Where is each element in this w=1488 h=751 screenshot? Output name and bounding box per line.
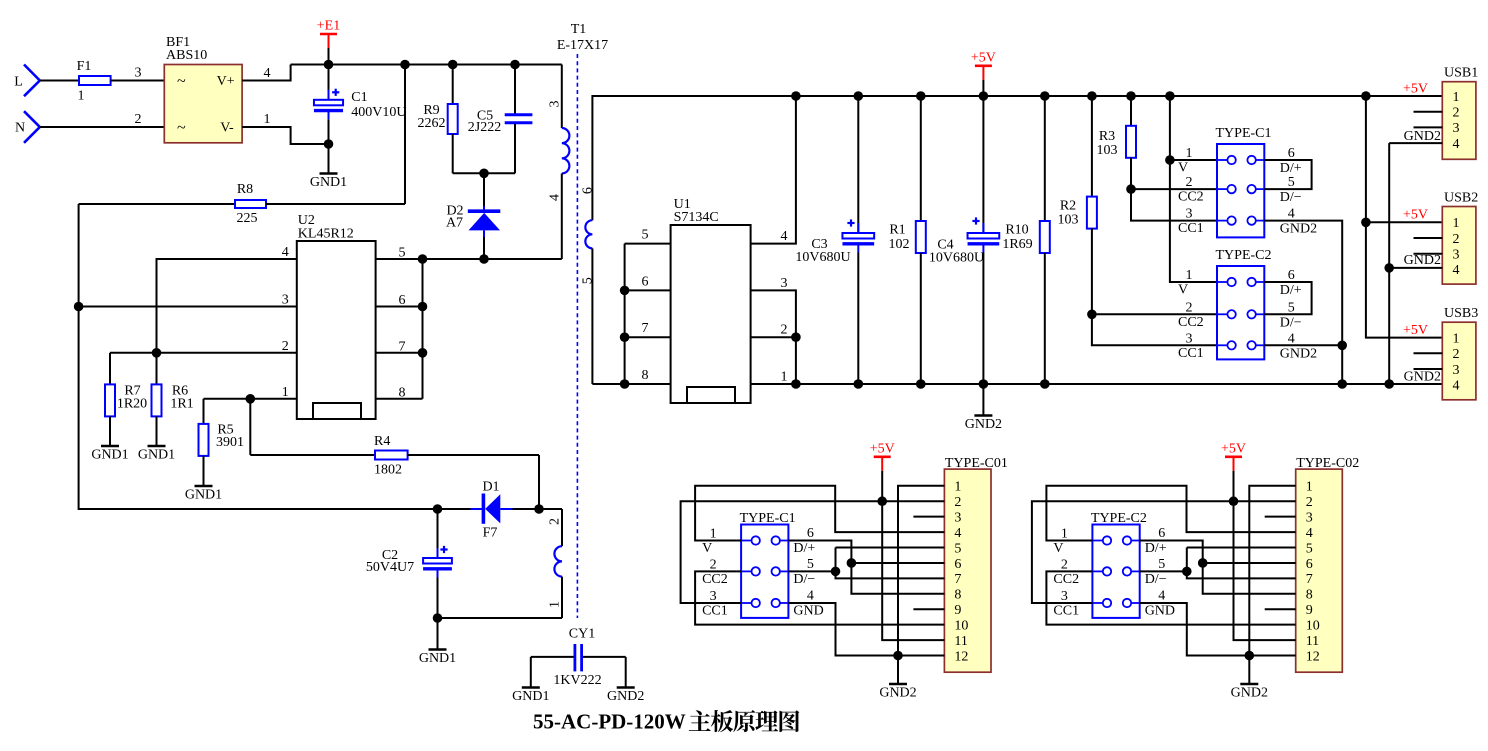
node — [854, 379, 864, 389]
svg-text:TYPE-C1: TYPE-C1 — [1216, 126, 1272, 141]
node — [479, 254, 489, 264]
svg-text:GND2: GND2 — [1280, 346, 1317, 361]
label T1 — [557, 22, 608, 53]
svg-text:D/−: D/− — [793, 572, 815, 587]
svg-text:CC1: CC1 — [1178, 221, 1204, 236]
node — [893, 651, 903, 661]
svg-text:USB2: USB2 — [1444, 190, 1478, 205]
svg-text:11: 11 — [954, 634, 967, 649]
connector USB3 — [1442, 306, 1478, 400]
wire — [1264, 160, 1311, 189]
svg-text:4: 4 — [807, 589, 814, 604]
svg-text:E-17X17: E-17X17 — [557, 38, 608, 53]
svg-text:GND: GND — [793, 604, 823, 619]
svg-text:R1: R1 — [889, 223, 905, 238]
svg-text:6: 6 — [1158, 526, 1165, 541]
wire — [751, 96, 796, 244]
power +5V — [870, 441, 895, 501]
capacitor CY1 — [531, 627, 626, 689]
svg-text:7: 7 — [642, 321, 649, 336]
svg-text:3: 3 — [548, 101, 563, 108]
label GND2 — [1404, 129, 1441, 144]
wire — [1140, 570, 1187, 572]
svg-text:10V680U: 10V680U — [795, 250, 850, 265]
resistor R7 — [105, 353, 147, 446]
pin labels TYPE-C2 right — [1145, 526, 1175, 619]
connector TYPE-C01 — [944, 456, 1008, 672]
svg-text:D/−: D/− — [1280, 315, 1302, 330]
pin labels TYPE-C2 left — [1178, 268, 1204, 361]
wire — [1131, 188, 1217, 190]
capacitor C3 — [795, 96, 874, 384]
node — [324, 60, 334, 70]
pin label U2.5 — [399, 246, 406, 261]
svg-text:USB3: USB3 — [1444, 306, 1478, 321]
regulator U1 — [671, 197, 751, 403]
svg-text:1: 1 — [1453, 216, 1460, 231]
svg-text:TYPE-C2: TYPE-C2 — [1216, 248, 1272, 263]
svg-text:6: 6 — [1288, 146, 1295, 161]
transformer T1 secondary winding 2-1 — [438, 509, 563, 618]
svg-text:1: 1 — [1453, 90, 1460, 105]
wire — [751, 383, 1443, 385]
svg-text:1KV222: 1KV222 — [553, 673, 601, 688]
svg-text:D/−: D/− — [1280, 190, 1302, 205]
label +5V — [1403, 208, 1428, 223]
svg-text:2: 2 — [1061, 557, 1068, 572]
pin label U1.5 — [642, 228, 649, 243]
connector TYPE-C2 — [1091, 511, 1147, 618]
node — [1087, 310, 1097, 320]
wire — [376, 398, 423, 400]
svg-text:GND1: GND1 — [512, 689, 549, 704]
node — [433, 504, 443, 514]
wire — [110, 352, 297, 354]
ground GND2 — [607, 657, 644, 704]
svg-text:4: 4 — [781, 229, 788, 244]
svg-text:1: 1 — [1186, 268, 1193, 283]
svg-text:2: 2 — [1453, 347, 1460, 362]
wire — [376, 352, 423, 354]
wire — [898, 486, 944, 656]
wire — [836, 548, 945, 579]
svg-text:GND2: GND2 — [965, 417, 1002, 432]
svg-text:V: V — [1178, 161, 1188, 176]
svg-text:10V680U: 10V680U — [929, 251, 984, 266]
svg-text:3: 3 — [1453, 121, 1460, 136]
wire — [1265, 516, 1296, 518]
wire — [422, 259, 424, 399]
svg-text:1: 1 — [781, 370, 788, 385]
svg-text:V: V — [1053, 541, 1063, 556]
wire — [913, 608, 944, 610]
wire — [453, 172, 515, 174]
port L — [14, 65, 40, 97]
svg-text:6: 6 — [581, 187, 596, 194]
wire — [751, 290, 796, 384]
resistor R9 — [418, 65, 458, 174]
svg-text:2: 2 — [1306, 495, 1313, 510]
svg-text:GND1: GND1 — [310, 175, 347, 190]
resistor R3 — [1097, 96, 1218, 221]
node — [1361, 218, 1371, 228]
svg-text:3: 3 — [1061, 589, 1068, 604]
svg-text:4: 4 — [1288, 331, 1295, 346]
svg-text:2: 2 — [548, 518, 563, 525]
wire — [851, 562, 944, 564]
bridge rectifier BF1 — [164, 35, 242, 143]
svg-text:+5V: +5V — [1403, 82, 1428, 97]
wire — [242, 112, 328, 144]
svg-text:2: 2 — [1453, 106, 1460, 121]
pin label U1.1 — [781, 370, 788, 385]
wire — [1264, 344, 1342, 346]
pin labels TYPE-C1 right — [1280, 146, 1317, 237]
svg-text:R4: R4 — [374, 434, 390, 449]
wire — [1414, 126, 1443, 128]
svg-text:~: ~ — [177, 73, 186, 90]
wire — [913, 516, 944, 518]
svg-text:9: 9 — [1306, 603, 1313, 618]
svg-text:4: 4 — [1288, 207, 1295, 222]
wire — [681, 501, 945, 603]
svg-text:2: 2 — [282, 339, 289, 354]
pin label U1.2 — [781, 323, 788, 338]
ground GND1 — [512, 657, 549, 704]
wire — [1388, 143, 1390, 384]
svg-text:4: 4 — [1453, 379, 1460, 394]
svg-text:5: 5 — [1288, 175, 1295, 190]
svg-text:8: 8 — [954, 588, 961, 603]
svg-text:1: 1 — [1186, 146, 1193, 161]
wire — [1264, 282, 1311, 314]
node — [1198, 558, 1208, 568]
svg-text:3: 3 — [781, 276, 788, 291]
svg-text:GND2: GND2 — [879, 686, 916, 701]
pin label U1.3 — [781, 276, 788, 291]
svg-text:F7: F7 — [483, 526, 498, 541]
svg-text:400V10U: 400V10U — [351, 105, 406, 120]
svg-text:R2: R2 — [1060, 198, 1076, 213]
svg-text:7: 7 — [1306, 572, 1313, 587]
svg-text:3: 3 — [1453, 363, 1460, 378]
ground GND2 — [965, 384, 1002, 432]
svg-text:4: 4 — [1306, 526, 1313, 541]
svg-text:GND: GND — [1145, 604, 1175, 619]
svg-text:6: 6 — [1288, 268, 1295, 283]
wire — [1140, 603, 1296, 656]
connector TYPE-C2 — [1216, 248, 1272, 359]
wire — [625, 336, 671, 338]
svg-text:55-AC-PD-120W: 55-AC-PD-120W — [533, 710, 686, 734]
wire — [249, 399, 251, 455]
svg-text:4: 4 — [1453, 137, 1460, 152]
node — [791, 379, 801, 389]
power +E1 — [317, 19, 340, 65]
node — [418, 302, 428, 312]
wire — [376, 306, 423, 308]
svg-text:11: 11 — [1306, 634, 1319, 649]
svg-text:1R20: 1R20 — [117, 397, 147, 412]
svg-text:V: V — [702, 541, 712, 556]
wire — [204, 398, 297, 400]
pin label U2.2 — [282, 339, 289, 354]
svg-text:5: 5 — [807, 557, 814, 572]
wire — [788, 541, 944, 594]
svg-text:R8: R8 — [237, 182, 253, 197]
wire — [624, 244, 626, 384]
svg-text:GND1: GND1 — [419, 651, 456, 666]
svg-text:+5V: +5V — [1221, 441, 1246, 456]
node — [418, 254, 428, 264]
ground GND1 — [185, 486, 222, 503]
node — [916, 379, 926, 389]
svg-text:5: 5 — [1306, 541, 1313, 556]
svg-text:2: 2 — [1186, 300, 1193, 315]
svg-text:KL45R12: KL45R12 — [298, 227, 354, 242]
svg-text:5: 5 — [1288, 300, 1295, 315]
svg-text:V+: V+ — [217, 74, 235, 89]
node — [1165, 155, 1175, 165]
wire — [79, 204, 438, 509]
wire — [1187, 547, 1296, 549]
wire — [788, 570, 835, 572]
svg-text:3: 3 — [1306, 510, 1313, 525]
svg-text:D1: D1 — [482, 480, 499, 495]
node — [620, 379, 630, 389]
svg-text:3: 3 — [954, 510, 961, 525]
svg-text:CC1: CC1 — [1178, 346, 1204, 361]
svg-text:1: 1 — [264, 112, 271, 127]
pin label U2.6 — [399, 293, 406, 308]
svg-text:3: 3 — [1453, 248, 1460, 263]
wire — [1046, 571, 1295, 624]
label +5V — [1403, 323, 1428, 338]
wire — [1414, 368, 1443, 370]
svg-text:R3: R3 — [1099, 129, 1115, 144]
svg-text:T1: T1 — [571, 22, 587, 37]
svg-text:GND2: GND2 — [607, 689, 644, 704]
svg-text:~: ~ — [177, 120, 186, 137]
node — [979, 91, 989, 101]
node — [1384, 263, 1394, 273]
svg-text:6: 6 — [1306, 557, 1313, 572]
svg-text:1: 1 — [1061, 527, 1068, 542]
svg-text:GND2: GND2 — [1280, 222, 1317, 237]
node — [847, 558, 857, 568]
connector USB1 — [1442, 66, 1478, 160]
svg-text:4: 4 — [548, 194, 563, 201]
svg-text:CC2: CC2 — [1178, 190, 1204, 205]
svg-text:CC2: CC2 — [1053, 572, 1079, 587]
node — [510, 60, 520, 70]
node — [433, 613, 443, 623]
wire — [1414, 111, 1443, 113]
svg-text:2: 2 — [1186, 175, 1193, 190]
wire — [1414, 253, 1443, 255]
svg-text:4: 4 — [954, 526, 961, 541]
svg-text:6: 6 — [807, 526, 814, 541]
svg-text:CC2: CC2 — [1178, 315, 1204, 330]
pin labels TYPE-C1 right — [793, 526, 823, 619]
wire — [592, 383, 670, 385]
resistor R10 — [1002, 96, 1049, 384]
svg-text:4: 4 — [264, 66, 271, 81]
svg-text:4: 4 — [1158, 589, 1165, 604]
svg-text:D/−: D/− — [1145, 572, 1167, 587]
node — [418, 348, 428, 358]
svg-text:8: 8 — [1306, 588, 1313, 603]
wire — [1389, 267, 1442, 269]
wire — [882, 501, 944, 640]
node — [1245, 651, 1255, 661]
pin label U1.8 — [642, 368, 649, 383]
fuse F1 — [77, 59, 111, 104]
svg-text:5: 5 — [1158, 557, 1165, 572]
wire — [836, 547, 945, 549]
svg-text:3: 3 — [710, 589, 717, 604]
svg-text:1: 1 — [710, 527, 717, 542]
svg-text:12: 12 — [1306, 649, 1320, 664]
wire — [538, 455, 540, 509]
label GND2 — [1404, 370, 1441, 385]
svg-text:1: 1 — [1453, 331, 1460, 346]
wire — [404, 65, 406, 205]
svg-text:225: 225 — [237, 211, 258, 226]
title — [533, 710, 799, 734]
node — [620, 332, 630, 342]
ground GND2 — [879, 656, 916, 701]
svg-text:2262: 2262 — [418, 116, 446, 131]
node — [74, 302, 84, 312]
node — [979, 379, 989, 389]
node — [534, 504, 544, 514]
svg-text:USB1: USB1 — [1444, 66, 1478, 81]
pin label U2.1 — [282, 385, 289, 400]
controller U2 — [297, 213, 376, 419]
svg-text:A7: A7 — [446, 216, 463, 231]
svg-text:+5V: +5V — [1403, 208, 1428, 223]
wire — [1092, 313, 1217, 315]
svg-text:1R1: 1R1 — [170, 397, 193, 412]
node — [324, 139, 334, 149]
connector TYPE-C02 — [1296, 456, 1360, 672]
svg-text:D/+: D/+ — [1280, 283, 1302, 298]
svg-text:+5V: +5V — [971, 50, 996, 65]
pin labels TYPE-C1 left — [702, 527, 728, 619]
node — [1384, 379, 1394, 389]
pin label U2.7 — [399, 339, 406, 354]
wire — [695, 486, 944, 541]
wire — [1187, 548, 1296, 579]
wire — [625, 289, 671, 291]
svg-text:S7134C: S7134C — [674, 210, 719, 225]
node — [1126, 184, 1136, 194]
svg-text:103: 103 — [1097, 143, 1118, 158]
wire — [788, 603, 944, 656]
node — [1182, 567, 1192, 577]
wire — [1366, 96, 1442, 338]
svg-text:2: 2 — [1453, 232, 1460, 247]
pin label U2.4 — [282, 245, 289, 260]
node — [791, 332, 801, 342]
wire — [625, 243, 671, 245]
svg-text:GND1: GND1 — [185, 488, 222, 503]
svg-text:F1: F1 — [77, 59, 92, 74]
wire — [157, 259, 297, 353]
label GND2 — [1404, 253, 1441, 268]
svg-text:3: 3 — [135, 66, 142, 81]
ground GND1 — [91, 446, 128, 463]
svg-text:6: 6 — [642, 274, 649, 289]
svg-text:3901: 3901 — [216, 435, 244, 450]
wire — [242, 65, 291, 82]
wire — [1140, 541, 1296, 594]
node — [1337, 341, 1347, 351]
svg-text:GND1: GND1 — [138, 448, 175, 463]
svg-text:7: 7 — [954, 572, 961, 587]
power +5V — [971, 50, 996, 96]
ground GND1 — [310, 144, 347, 190]
svg-text:+5V: +5V — [870, 441, 895, 456]
pin label U1.4 — [781, 229, 788, 244]
svg-text:D/+: D/+ — [1280, 161, 1302, 176]
wire — [1046, 486, 1295, 541]
node — [791, 91, 801, 101]
resistor R2 — [1058, 96, 1218, 345]
capacitor C5 — [468, 65, 533, 174]
wire — [1414, 352, 1443, 354]
node — [1040, 379, 1050, 389]
svg-text:1: 1 — [282, 385, 289, 400]
node — [400, 60, 410, 70]
port N — [15, 111, 40, 143]
wire — [291, 64, 562, 66]
node — [831, 567, 841, 577]
svg-text:1: 1 — [548, 601, 563, 608]
svg-text:V: V — [1178, 283, 1188, 298]
wire — [539, 508, 562, 510]
svg-text:ABS10: ABS10 — [166, 48, 207, 63]
transformer T1 secondary winding 6-5 — [581, 96, 1443, 384]
wire — [1264, 221, 1342, 384]
pin label U2.3 — [282, 293, 289, 308]
diode D2 — [446, 173, 500, 259]
svg-text:4: 4 — [282, 245, 289, 260]
svg-text:1: 1 — [954, 480, 961, 495]
svg-text:CC1: CC1 — [1053, 604, 1079, 619]
pin labels TYPE-C1 left — [1178, 146, 1204, 236]
svg-text:3: 3 — [1186, 331, 1193, 346]
svg-text:102: 102 — [889, 237, 910, 252]
node — [1165, 91, 1175, 101]
pin label U1.6 — [642, 274, 649, 289]
ground GND1 — [138, 446, 175, 463]
svg-text:2: 2 — [954, 495, 961, 510]
capacitor C1 — [314, 65, 407, 145]
svg-text:5: 5 — [954, 541, 961, 556]
connector TYPE-C1 — [1216, 126, 1272, 237]
node — [1229, 496, 1239, 506]
svg-text:10: 10 — [1306, 618, 1320, 633]
svg-text:+5V: +5V — [1403, 323, 1428, 338]
wire — [376, 258, 562, 260]
power +5V — [1221, 441, 1246, 501]
svg-text:3: 3 — [1186, 207, 1193, 222]
svg-text:1: 1 — [1306, 480, 1313, 495]
diode D1 — [438, 480, 540, 541]
connector USB2 — [1442, 190, 1478, 284]
